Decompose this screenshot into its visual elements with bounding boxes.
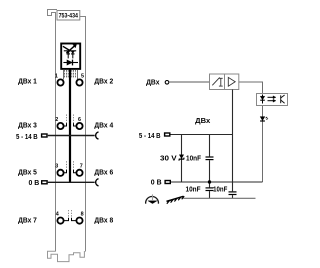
light arrow over LEDs: [63, 44, 77, 53]
wire conditioner output to isolation: [239, 82, 263, 94]
svg-text:ДВх 4: ДВх 4: [94, 120, 113, 129]
0V wire end socket arc: [96, 179, 99, 186]
svg-text:ДВх 7: ДВх 7: [18, 215, 37, 224]
svg-text:ДВх 5: ДВх 5: [18, 167, 37, 176]
coupling arrows: [268, 96, 277, 102]
svg-text:5: 5: [81, 73, 84, 79]
internal wiring hatch below symbol box: [64, 70, 78, 80]
capacitor C1 10nF branch (between rails, down to earth): [209, 135, 211, 157]
svg-text:10nF: 10nF: [186, 153, 201, 162]
left 5-14V plug connector: [42, 134, 47, 137]
earth rail: [183, 197, 255, 199]
svg-text:ДВх: ДВх: [195, 116, 210, 125]
junction dot 0V/C2: [208, 180, 211, 183]
capacitor C3 10nF (supply line to earth): [229, 192, 237, 195]
module DIN-rail foot: [48, 251, 85, 262]
zener VD1 30V branch: [181, 135, 183, 183]
module body outline 753-434: [48, 10, 86, 252]
terminal 3: [57, 170, 63, 176]
protection diode (horizontal): [63, 60, 78, 66]
terminal 8: [76, 218, 82, 224]
row2 internal dashed links: [67, 115, 74, 124]
terminal 2: [57, 123, 63, 129]
terminal 1: [57, 79, 63, 85]
svg-text:ДВх 6: ДВх 6: [94, 167, 113, 176]
wire isolation down to 0V rail: [262, 106, 264, 183]
signal conditioner U1 (threshold /I): [210, 74, 225, 90]
svg-text:ДВх: ДВх: [146, 78, 159, 87]
svg-text:5 - 14 В: 5 - 14 В: [139, 131, 161, 140]
svg-text:ДВх 1: ДВх 1: [18, 76, 37, 85]
internal 0V spine (thick center line): [69, 69, 71, 183]
svg-text:5 - 14 В: 5 - 14 В: [16, 132, 38, 141]
row3 internal dashed links: [67, 161, 74, 170]
row4 internal dashed links: [69, 210, 72, 218]
terminal 7: [76, 170, 82, 176]
capacitor C2 10nF (0V to earth): [206, 188, 214, 191]
svg-text:ДВх 2: ДВх 2: [94, 76, 113, 85]
svg-text:ДВх 8: ДВх 8: [94, 215, 113, 224]
left 0V plug connector: [42, 181, 47, 184]
0V rail: [171, 181, 263, 183]
svg-text:6: 6: [78, 117, 81, 123]
amplifier U2 (triangle): [225, 74, 239, 90]
functional earth symbol: [146, 194, 159, 203]
5-14V wire end socket arc: [96, 132, 99, 139]
right 5-14V plug connector: [165, 133, 170, 136]
svg-text:4: 4: [56, 212, 59, 218]
svg-text:7: 7: [80, 164, 83, 170]
left 5-14V wire across module: [48, 135, 95, 137]
svg-text:30 V: 30 V: [160, 153, 177, 162]
left 0V wire across module: [48, 181, 95, 183]
terminal 5: [76, 79, 82, 85]
svg-text:ДВх 3: ДВх 3: [18, 120, 37, 129]
5-14V rail: [171, 134, 234, 136]
chassis ground symbol: [167, 196, 185, 204]
right 0V plug connector: [165, 181, 170, 184]
DVx input terminal circle: [165, 81, 169, 85]
svg-text:10nF: 10nF: [186, 185, 201, 194]
wire DVx to conditioner: [169, 81, 210, 83]
svg-text:753-434: 753-434: [59, 13, 79, 20]
svg-text:0 В: 0 В: [151, 178, 162, 187]
svg-text:0 В: 0 В: [29, 178, 40, 187]
svg-text:2: 2: [55, 117, 58, 123]
svg-text:8: 8: [81, 212, 84, 218]
status LED D1 on isolation line: [260, 117, 268, 121]
optocoupler LED: [260, 95, 265, 104]
part number label box 753-434: [57, 11, 80, 21]
LED pair (two down diodes): [64, 51, 76, 59]
wire block bottom through rails to bypass cap: [232, 90, 234, 192]
svg-text:3: 3: [55, 164, 58, 170]
terminal 6: [76, 123, 82, 129]
svg-text:10nF: 10nF: [213, 185, 228, 194]
svg-text:1: 1: [55, 73, 58, 79]
status LED / diode symbol box: [61, 44, 80, 69]
terminal 4: [57, 218, 63, 224]
optocoupler phototransistor: [281, 95, 285, 103]
galvanic isolation box (optocoupler): [257, 94, 288, 106]
